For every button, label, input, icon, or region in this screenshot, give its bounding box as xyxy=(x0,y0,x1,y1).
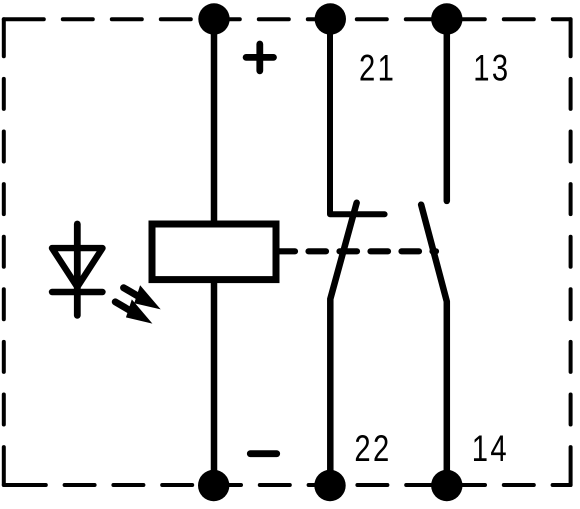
svg-text:22: 22 xyxy=(354,429,391,470)
NO contact blade 13-14 xyxy=(421,205,447,486)
relay housing outline left (dashed) xyxy=(2,19,6,485)
svg-text:21: 21 xyxy=(359,49,396,90)
relay housing outline right (dashed) xyxy=(569,19,573,485)
svg-text:14: 14 xyxy=(472,429,509,470)
mechanical linkage (dashed) from coil to contacts xyxy=(280,248,437,254)
relay coil K1 xyxy=(152,224,276,280)
polarity label - xyxy=(250,450,276,457)
LED D1 cathode bar xyxy=(52,289,103,295)
LED D1 anode wire xyxy=(74,224,81,315)
relay housing outline bottom (dashed) xyxy=(4,483,571,487)
wire coil top (from + terminal to coil) xyxy=(211,19,218,222)
terminal 22 (bottom middle) xyxy=(314,470,345,501)
terminal 21 (top middle) xyxy=(315,3,346,34)
terminal 13 (top right) xyxy=(431,3,462,34)
svg-text:13: 13 xyxy=(473,49,510,90)
wire coil bottom (from coil to - terminal) xyxy=(211,282,218,485)
wire terminal 21 with fixed contact bar xyxy=(330,19,385,215)
LED D1 emission arrow 1 xyxy=(120,279,166,317)
wire terminal 13 xyxy=(444,19,451,201)
polarity label + xyxy=(246,44,273,71)
terminal + (top left) xyxy=(198,3,229,34)
relay housing outline top (dashed) xyxy=(4,17,571,21)
LED D1 emission arrow 2 xyxy=(111,293,157,331)
NC contact blade 21-22 xyxy=(330,203,356,486)
terminal - (bottom left) xyxy=(198,470,229,501)
terminal 14 (bottom right) xyxy=(431,470,462,501)
LED D1 triangle xyxy=(52,248,103,287)
